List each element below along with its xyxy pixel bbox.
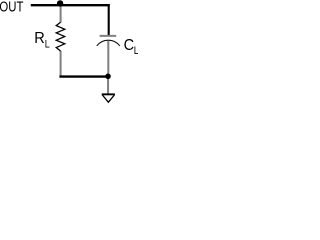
capacitor C_L top plate: [100, 35, 117, 37]
svg-text:OUT: OUT: [0, 0, 23, 15]
resistor R_L bottom lead: [60, 51, 62, 77]
wire top horizontal (OUT to right corner): [31, 4, 110, 6]
resistor R_L zigzag body: [56, 22, 65, 51]
svg-text:R: R: [34, 30, 45, 47]
junction dot bottom node: [105, 74, 111, 80]
svg-text:L: L: [134, 45, 138, 57]
resistor R_L top lead: [60, 6, 62, 22]
wire right vertical (corner down to capacitor): [108, 4, 110, 35]
capacitor C_L curved plate: [97, 40, 120, 46]
junction dot top node: [57, 0, 63, 6]
svg-text:C: C: [124, 37, 135, 54]
ground lead: [107, 79, 109, 94]
ground symbol triangle: [102, 93, 115, 95]
ground triangle sides: [102, 95, 114, 102]
capacitor C_L bottom lead: [107, 41, 109, 75]
svg-text:L: L: [45, 38, 50, 50]
wire bottom horizontal: [59, 75, 107, 77]
